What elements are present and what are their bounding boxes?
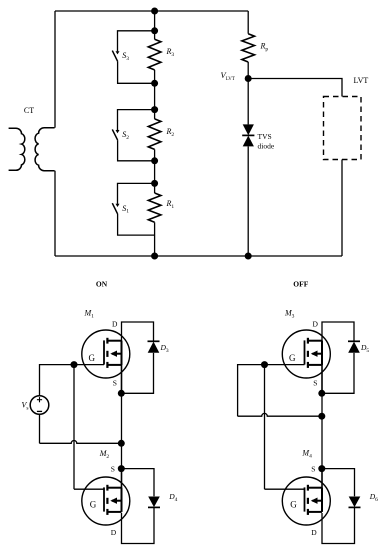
wire TVS to bottom bus [247, 146, 249, 256]
wire M3 drain [322, 322, 354, 365]
svg-text:M1: M1 [84, 309, 95, 320]
svg-text:M2: M2 [99, 449, 110, 460]
switch S1 [112, 203, 119, 214]
wire D5 to source node [322, 353, 354, 393]
wire LVT box to bottom bus [341, 160, 343, 257]
node top bus / main bus [151, 8, 158, 15]
transformer CT secondary winding [35, 128, 55, 171]
node M2 source [118, 465, 125, 472]
wire gate tie (hops over gate bus) [238, 413, 322, 416]
wire M4 source vertical [321, 469, 323, 488]
wire M1 drain-source vertical [121, 341, 123, 394]
wire Vs to bottom rail [39, 414, 41, 443]
wire S3 branch top [118, 31, 155, 51]
svg-text:ON: ON [96, 279, 108, 288]
svg-text:S: S [311, 465, 315, 474]
wire gate node to Vs [40, 365, 75, 396]
svg-text:S: S [313, 379, 317, 388]
svg-text:R2: R2 [166, 127, 175, 138]
wire S2 branch bottom [118, 140, 155, 161]
n-channel MOSFET M1 [82, 330, 130, 378]
wire source bus M3-M4 [321, 393, 323, 468]
wire main bus segment 1 [154, 11, 156, 39]
svg-text:S: S [111, 465, 115, 474]
node TVS branch / bottom bus [245, 253, 252, 260]
svg-text:R3: R3 [166, 47, 175, 58]
voltage source Vs [30, 396, 49, 415]
wire left rail lower [54, 171, 56, 256]
node gate tie / source bus [318, 413, 325, 420]
wire S1 branch bottom [118, 214, 155, 235]
wire left rail upper [54, 11, 56, 128]
wire gate bus M1-M2 [73, 365, 75, 490]
wire VLVT node to LVT box [248, 79, 342, 97]
svg-text:D: D [311, 528, 317, 537]
wire bottom bus [55, 255, 342, 257]
svg-text:G: G [289, 353, 296, 363]
wire S2 branch top [118, 110, 155, 130]
wire main bus segment 3 [154, 149, 156, 193]
wire M3 gate lead [265, 364, 305, 366]
wire M2 drain [122, 507, 155, 543]
wire gate bus M3-M4 [264, 365, 266, 490]
node M3 gate [261, 361, 268, 368]
LVT block (dashed box) [324, 97, 362, 160]
wire main bus segment 4 [154, 222, 156, 256]
svg-text:VLVT: VLVT [221, 70, 235, 82]
svg-text:S1: S1 [122, 204, 129, 215]
svg-text:TVS: TVS [258, 132, 272, 141]
wire Vs return (hops over gate bus) [40, 441, 122, 444]
svg-text:CT: CT [24, 106, 34, 115]
svg-text:M3: M3 [284, 309, 295, 320]
wire D3 to source node [122, 353, 154, 393]
switch S3 [112, 51, 119, 62]
svg-text:D: D [111, 528, 117, 537]
svg-text:R1: R1 [166, 199, 175, 210]
wire M4 drain [322, 507, 355, 543]
svg-text:Vs: Vs [22, 401, 29, 412]
node M1 source [118, 390, 125, 397]
svg-text:S: S [113, 379, 117, 388]
svg-text:S2: S2 [122, 130, 129, 141]
wire S3 branch bottom [118, 61, 155, 83]
wire D6 to M4 source node [322, 469, 355, 497]
diode D5 [348, 341, 360, 352]
svg-text:D4: D4 [168, 492, 177, 503]
wire M1 gate lead [74, 364, 104, 366]
svg-text:D: D [112, 319, 118, 328]
wire gate tie loop left [238, 365, 265, 417]
transformer CT primary winding [9, 128, 25, 170]
resistor R2 [148, 119, 161, 149]
resistor R1 [148, 193, 161, 222]
node main bus / bottom bus [151, 253, 158, 260]
node R3 top [151, 27, 158, 34]
wire M4 gate lead [265, 488, 305, 490]
n-channel MOSFET M3 [282, 330, 330, 378]
wire VLVT node to TVS [247, 79, 249, 125]
svg-text:G: G [90, 500, 97, 510]
resistor R3 [148, 39, 161, 70]
wire M1 drain [122, 322, 154, 365]
wire top bus [55, 10, 248, 12]
diode D6 [349, 497, 361, 508]
svg-text:G: G [89, 353, 96, 363]
wire S1 branch top [118, 183, 155, 203]
switch S2 [112, 129, 119, 140]
wire M2 source vertical [121, 469, 123, 488]
svg-text:diode: diode [258, 142, 275, 151]
svg-text:D3: D3 [160, 343, 169, 354]
svg-text:D: D [313, 319, 319, 328]
node R2 top [151, 106, 158, 113]
wire M2 gate lead [74, 488, 104, 490]
wire source bus M1-M2 [121, 393, 123, 468]
svg-text:D6: D6 [369, 492, 378, 503]
diode D3 [148, 341, 160, 352]
wire main bus segment 2 [154, 70, 156, 119]
node M1 gate [71, 361, 78, 368]
svg-text:Rp: Rp [260, 42, 269, 53]
svg-text:OFF: OFF [293, 279, 308, 288]
node R2 bottom [151, 157, 158, 164]
n-channel MOSFET M4 [282, 477, 330, 525]
svg-text:M4: M4 [301, 449, 312, 460]
node VLVT [245, 75, 252, 82]
svg-text:G: G [290, 500, 297, 510]
svg-text:S3: S3 [122, 51, 129, 62]
resistor Rp [242, 34, 255, 62]
node M3 source [318, 390, 325, 397]
diode D4 [148, 497, 160, 508]
node R3 bottom [151, 80, 158, 87]
node R1 top [151, 180, 158, 187]
wire M3 drain-source vertical [321, 341, 323, 394]
n-channel MOSFET M2 [82, 477, 130, 525]
TVS diode [242, 124, 254, 146]
wire Rp branch top [247, 11, 249, 34]
svg-text:LVT: LVT [354, 76, 369, 85]
node M4 source [318, 465, 325, 472]
wire D4 to M2 source node [122, 469, 155, 497]
wire Rp to VLVT node [247, 62, 249, 79]
svg-text:D5: D5 [360, 343, 369, 354]
node Vs return / source bus [118, 440, 125, 447]
